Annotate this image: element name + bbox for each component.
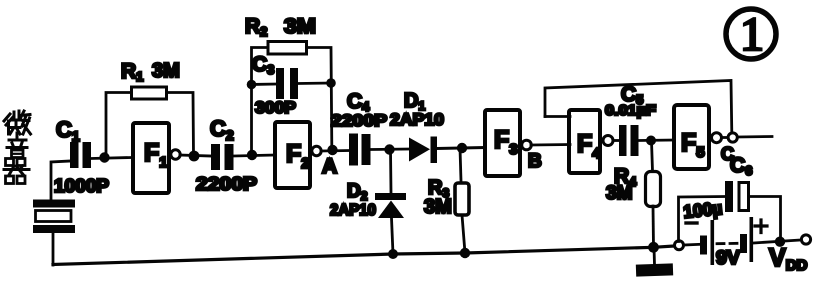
svg-text:B: B: [528, 151, 542, 172]
resistor R4: [646, 172, 661, 207]
wire R2 loop right: [307, 48, 332, 147]
amplifier F2: [275, 122, 310, 188]
wire feedback into F4 pin: [545, 115, 570, 118]
junction node R3 at rail: [460, 248, 470, 258]
wire C6 left branch: [679, 197, 726, 242]
wire F1 to C2: [180, 155, 211, 156]
svg-text:F4: F4: [577, 130, 601, 162]
capacitor C5: [619, 125, 639, 156]
svg-text:D2: D2: [347, 181, 368, 203]
pin F3 output circle: [522, 140, 532, 150]
capacitor C2: [211, 144, 234, 170]
svg-text:F1: F1: [144, 139, 168, 171]
node C circle: [728, 133, 737, 142]
amplifier F1: [133, 123, 169, 193]
svg-text:A: A: [322, 155, 337, 178]
wire feedback F5 to F4 (top rail): [545, 81, 732, 134]
junction node at F1 output: [189, 151, 200, 162]
junction node at D2 tap: [384, 144, 394, 154]
svg-text:VDD: VDD: [769, 244, 808, 274]
capacitor C3: [276, 68, 298, 99]
svg-text:3M: 3M: [152, 60, 180, 82]
wire C5 to F5: [639, 139, 674, 142]
wire F5 to node C: [722, 136, 728, 139]
svg-text:F5: F5: [681, 129, 705, 161]
wire D1 to F3: [437, 148, 484, 149]
ground symbol: [636, 247, 673, 277]
wire F4 to C5: [613, 139, 619, 142]
battery BT1 9V: [686, 217, 767, 269]
svg-text:300P: 300P: [255, 98, 296, 117]
pin F2 output circle: [312, 146, 321, 155]
svg-text:9V: 9V: [716, 248, 740, 269]
junction node Vdd: [775, 237, 785, 247]
svg-text:1: 1: [740, 8, 764, 61]
wire mic bottom lead: [52, 233, 55, 266]
junction node at R3 tap: [457, 143, 467, 153]
wire C3 left lead: [252, 83, 277, 86]
capacitor C1: [70, 142, 91, 168]
svg-text:C1: C1: [56, 117, 80, 144]
wire mic top lead: [51, 161, 70, 200]
cell 1 positive plate: [711, 220, 715, 265]
svg-text:2200P: 2200P: [196, 174, 257, 194]
microphone MIC symbol: [33, 200, 75, 234]
wire C6 right branch: [750, 197, 781, 239]
wire C2 to F2: [234, 155, 274, 156]
resistor R1: [132, 87, 167, 99]
junction node at C2/R2: [247, 150, 257, 160]
label 微音器 (microphone, hand-drawn CJK glyphs): [4, 111, 31, 184]
amplifier F5: [674, 105, 709, 169]
svg-text:R2: R2: [245, 15, 267, 39]
wire R4 bottom lead: [652, 206, 655, 247]
battery dashes: [717, 242, 739, 245]
pin F1 output circle: [171, 150, 180, 159]
wire output from node C: [738, 135, 773, 138]
cell 2 negative plate: [740, 234, 747, 253]
svg-text:C3: C3: [252, 53, 274, 77]
label minus sign: [686, 221, 697, 224]
音: [7, 133, 27, 148]
cell 2 positive plate: [750, 217, 754, 262]
svg-text:2AP10: 2AP10: [330, 202, 376, 219]
resistor R3: [455, 183, 469, 215]
junction node at C1/R1: [99, 152, 109, 162]
junction node C3 right: [326, 78, 336, 88]
wire D2 bottom lead: [392, 218, 394, 254]
wire bottom ground rail: [53, 246, 675, 265]
amplifier F3: [485, 110, 520, 176]
svg-text:C2: C2: [210, 116, 234, 143]
pin F4 output circle: [603, 136, 613, 146]
pin F5 output circle: [712, 133, 722, 143]
resistor R2: [268, 42, 307, 55]
wire F2 to C4: [321, 149, 349, 152]
器: [6, 159, 14, 166]
wire R4 top lead: [652, 141, 653, 171]
label plus sign: [755, 220, 767, 233]
junction node C3 left: [247, 80, 257, 90]
svg-text:R1: R1: [121, 60, 143, 84]
diode D1: [409, 137, 437, 164]
svg-text:3M: 3M: [606, 183, 632, 204]
svg-text:2200P: 2200P: [331, 111, 387, 130]
capacitor C6 (electrolytic): [725, 181, 749, 212]
wire C4 to D1: [371, 148, 410, 151]
diode D2: [375, 193, 406, 218]
wire R1 loop right: [167, 93, 194, 156]
wire R1 loop left: [106, 93, 130, 158]
svg-text:3M: 3M: [284, 15, 316, 38]
junction node A: [327, 145, 337, 155]
wire C1 to F1: [91, 158, 131, 159]
svg-text:C6: C6: [730, 154, 752, 178]
wire battery to Vdd: [754, 240, 802, 243]
svg-text:3M: 3M: [424, 196, 452, 218]
svg-text:F3: F3: [494, 126, 518, 158]
wire R3 top lead: [460, 148, 461, 181]
wire R2 loop left: [252, 48, 268, 156]
junction node at R4 tap: [646, 136, 656, 146]
svg-text:100µ: 100µ: [682, 198, 723, 222]
svg-text:0.01µF: 0.01µF: [605, 102, 656, 119]
junction node R4/ground at rail: [648, 242, 659, 253]
amplifier F4: [569, 110, 600, 173]
junction node D2 at rail: [388, 249, 398, 259]
cell 1 negative plate: [700, 236, 707, 255]
微: [4, 114, 13, 134]
terminal VDD circle: [801, 235, 810, 244]
wire R3 bottom lead: [462, 215, 465, 253]
capacitor C4: [349, 134, 371, 166]
wire F3 to F4: [531, 143, 570, 146]
svg-text:1000P: 1000P: [54, 176, 109, 196]
wire D2 top lead: [389, 150, 392, 194]
wire rail ring to battery: [684, 243, 701, 246]
node ring on rail (battery minus tap): [675, 241, 684, 250]
wire C3 right lead: [298, 82, 331, 85]
svg-text:2AP10: 2AP10: [390, 110, 444, 129]
svg-text:F2: F2: [286, 140, 310, 172]
figure number 1 (circled): [726, 8, 776, 61]
